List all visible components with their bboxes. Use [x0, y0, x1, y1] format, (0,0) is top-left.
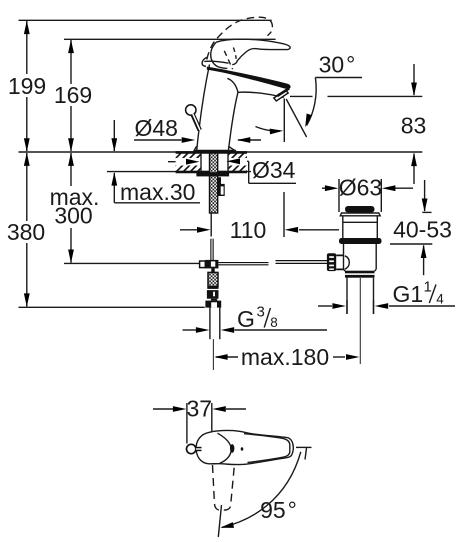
- dashed swung lever: [213, 465, 235, 510]
- body chamfer: [344, 269, 377, 271]
- svg-text:8: 8: [270, 315, 278, 330]
- lever handle: [216, 39, 290, 65]
- re-draw deck arrows over hatch: [186, 159, 200, 165]
- supply tube G3/8: [209, 307, 211, 339]
- drain pop-up waste assembly: [327, 206, 382, 364]
- plug dome: [345, 206, 375, 213]
- knob stem: [196, 447, 202, 451]
- max300 bottom line: [64, 262, 200, 264]
- marker dot: [230, 444, 234, 453]
- svg-text:37: 37: [187, 396, 213, 422]
- top view lever silhouette: [196, 430, 293, 464]
- svg-text:40-53: 40-53: [393, 217, 452, 243]
- horseshoe washer: [196, 172, 229, 176]
- svg-text:95 °: 95 °: [260, 497, 297, 523]
- svg-text:380: 380: [7, 219, 45, 245]
- svg-text:max.30: max.30: [120, 179, 195, 205]
- svg-text:300: 300: [54, 203, 92, 229]
- pull-rod stem: [193, 114, 200, 130]
- dimension 83: [290, 95, 313, 97]
- swung lever axis line: [218, 505, 221, 537]
- deck bottom / max30 line: [107, 171, 251, 173]
- faucet foot flares: [194, 146, 237, 151]
- pop-up horizontal rod: [218, 262, 268, 265]
- dimension max30 arrows: [113, 120, 115, 151]
- svg-text:169: 169: [54, 82, 92, 108]
- dimension max180: [216, 356, 238, 358]
- svg-text:3: 3: [257, 304, 265, 321]
- small arc arrow to vertical line: [256, 127, 281, 132]
- hose connector: [207, 286, 218, 289]
- faucet threaded shank below deck: [210, 153, 218, 213]
- aerator vertical reference line: [283, 99, 285, 143]
- spout thick top edge wedge: [207, 67, 291, 89]
- deck slab hatched left block: [155, 153, 265, 172]
- rod knob knurled: [327, 253, 336, 271]
- faucet body left edge: [197, 65, 210, 152]
- dashed inner lever lines: [224, 51, 232, 69]
- dimension 380 line: [26, 153, 28, 221]
- dimension 40-53: [422, 211, 431, 213]
- dimension Ø63: [338, 179, 340, 212]
- svg-text:G1: G1: [393, 281, 424, 307]
- o-ring: [339, 238, 382, 244]
- dimension line 110: [180, 229, 199, 231]
- svg-text:G: G: [237, 306, 255, 332]
- coupling rings: [345, 271, 375, 274]
- svg-text:Ø34: Ø34: [252, 157, 296, 183]
- deck surface line: [19, 151, 423, 153]
- top view cap inner arc: [218, 433, 232, 463]
- pull-rod knob: [186, 105, 196, 115]
- 380 bottom line: [19, 306, 205, 308]
- dimension G1 1/4: [318, 305, 332, 307]
- tailpiece tube: [346, 278, 348, 314]
- supply hose line: [210, 213, 212, 237]
- T fitting lower stem: [211, 268, 214, 272]
- top view pull-rod knob: [187, 444, 196, 453]
- spout underside: [238, 92, 284, 97]
- dimension 169 line: [70, 40, 72, 84]
- dimension 37 arrows: [153, 408, 173, 410]
- 95deg arc: [222, 452, 301, 528]
- reference line lever closed height: [64, 38, 276, 40]
- svg-text:Ø63: Ø63: [339, 175, 382, 201]
- pop-up rod T fitting: [200, 261, 206, 268]
- flow slant line: [286, 99, 306, 137]
- neck body: [343, 216, 378, 238]
- label max30 with underline: [114, 202, 200, 204]
- tick at handle tip: [296, 446, 312, 448]
- lower body: [344, 244, 377, 269]
- reference line top (raised lever height): [19, 19, 272, 21]
- faucet centerline: [212, 339, 214, 370]
- svg-text:199: 199: [8, 73, 46, 99]
- rod socket arc in body: [345, 256, 350, 269]
- svg-text:110: 110: [230, 217, 267, 243]
- svg-text:1: 1: [424, 279, 432, 296]
- svg-text:83: 83: [401, 113, 427, 139]
- drain centerline: [359, 278, 361, 364]
- T fitting upper stem: [210, 239, 213, 260]
- svg-text:Ø48: Ø48: [135, 115, 178, 141]
- aerator face: [274, 90, 288, 101]
- dimension G3/8: [183, 329, 197, 331]
- cap collar: [202, 57, 207, 66]
- faucet body right edge: [227, 78, 238, 151]
- 30deg arc with arrow: [307, 78, 317, 126]
- braided hose segment: [208, 272, 218, 286]
- svg-text:30 °: 30 °: [319, 52, 356, 78]
- G3/8 hex nut: [205, 301, 221, 308]
- dimension max300 line: [70, 153, 72, 186]
- foot shadow line: [194, 150, 236, 152]
- flange: [340, 213, 380, 216]
- svg-text:4: 4: [436, 292, 444, 307]
- dimension 199 line: [26, 21, 28, 74]
- pull-rod guide bracket: [218, 177, 225, 196]
- svg-text:max.180: max.180: [241, 344, 329, 370]
- lever back edge: [211, 42, 228, 68]
- dimension 37 extension lines: [186, 403, 188, 444]
- dashed raised lever: [207, 17, 273, 59]
- knob boss: [336, 255, 344, 269]
- blade inner contour: [244, 434, 290, 463]
